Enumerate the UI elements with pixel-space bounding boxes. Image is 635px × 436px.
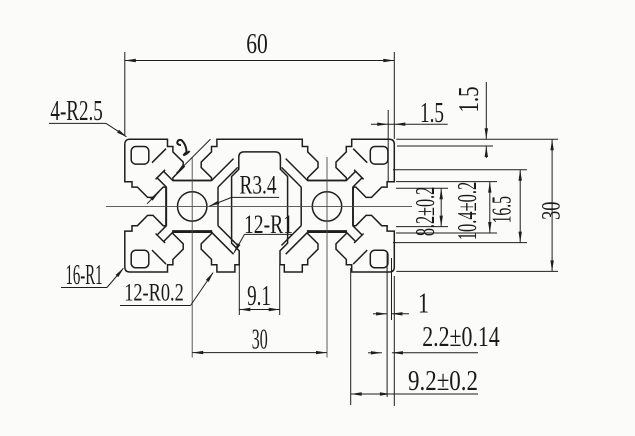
svg-text:4-R2.5: 4-R2.5 [50, 97, 102, 127]
svg-text:30: 30 [252, 324, 268, 355]
boss flats of cell at x=192 [173, 180, 212, 182]
web end cap SE cell 327 [354, 234, 364, 244]
dim 16.5 [519, 170, 521, 243]
corner hole top-left [131, 147, 149, 165]
svg-text:30: 30 [536, 202, 565, 220]
svg-text:16-R1: 16-R1 [65, 259, 102, 290]
center bore right R3.4 [312, 192, 341, 221]
web NE of cell at x=327 [346, 171, 355, 180]
svg-text:16.5: 16.5 [486, 196, 517, 223]
dim 9.2+-0.2 [351, 393, 391, 395]
dim 1 [373, 313, 387, 315]
svg-text:12-R1: 12-R1 [244, 210, 293, 240]
web end cap NE cell 327 [354, 170, 364, 180]
svg-text:1.5: 1.5 [454, 86, 485, 112]
dim 1.5 horizontal: lines [387, 110, 389, 182]
web SE of cell at x=327 [346, 232, 355, 241]
dim 8.2+-0.2 [440, 188, 442, 226]
center bore left R3.4 [178, 192, 207, 221]
svg-text:8.2±0.2: 8.2±0.2 [410, 187, 440, 236]
svg-text:2.2±0.14: 2.2±0.14 [422, 323, 500, 353]
horizontal centerline [106, 205, 412, 207]
web SE of cell at x=192 [212, 232, 234, 254]
corner chamfer NW cell 192 [152, 149, 166, 163]
vertical centerline right cell [326, 157, 328, 358]
corner chamfer SW cell 192 [152, 250, 166, 264]
profile outer boundary with T-slots [125, 139, 395, 272]
vertical centerline left cell [191, 157, 193, 358]
svg-text:1: 1 [418, 288, 429, 319]
web end cap NW cell 192 [156, 170, 166, 180]
svg-text:1.5: 1.5 [420, 99, 444, 129]
dim 10.4+-0.2 [489, 182, 491, 233]
dim 60: dimension line [125, 60, 395, 62]
web NE of cell at x=192 [212, 159, 234, 181]
svg-text:9.2±0.2: 9.2±0.2 [408, 365, 478, 397]
dim 30 right [551, 139, 553, 271]
dim 1.5 vertical: lines [485, 82, 487, 139]
right side extension lines [396, 138, 558, 140]
svg-text:12-R0.2: 12-R0.2 [124, 278, 184, 307]
svg-text:10.4±0.2: 10.4±0.2 [452, 182, 482, 240]
dim 60: extension lines [124, 52, 126, 135]
corner hole bottom-left [131, 250, 149, 268]
svg-text:9.1: 9.1 [247, 282, 271, 312]
web end cap SW cell 192 [156, 234, 166, 244]
dim 9.1: lines [238, 265, 240, 315]
web NW of cell at x=192 [164, 171, 173, 180]
dim 2: leaders and text [176, 139, 210, 173]
web NW of cell at x=327 [286, 159, 308, 181]
web SW of cell at x=327 [286, 232, 308, 254]
boss flats of cell at x=327 [308, 180, 347, 182]
dim 2.2+-0.14 [368, 352, 382, 354]
corner hole bottom-right [370, 250, 388, 268]
dim 30 bottom: lines [192, 352, 327, 354]
bottom right extension lines [350, 268, 352, 405]
svg-text:60: 60 [246, 29, 268, 59]
web SW of cell at x=192 [164, 232, 173, 241]
svg-text:R3.4: R3.4 [239, 171, 276, 201]
corner chamfer SE cell 327 [353, 250, 367, 264]
corner chamfer NE cell 327 [353, 149, 367, 163]
corner hole top-right [370, 147, 388, 165]
